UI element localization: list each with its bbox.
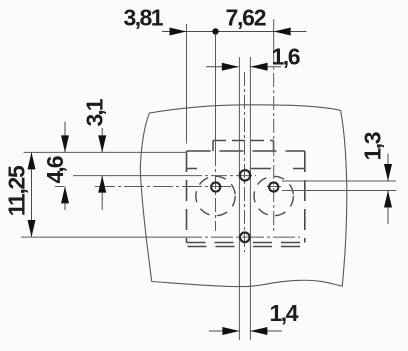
arrow 1,6 right	[251, 63, 268, 71]
dashed circle right contact	[254, 176, 293, 215]
arrow 1,4 left	[222, 327, 239, 335]
centerline vertical right hole	[273, 19, 275, 50]
slot right edge line	[249, 57, 251, 340]
hole circle top (1,6)	[240, 170, 250, 180]
arrow 4,6 top	[61, 135, 69, 152]
PCB square outline (wavy)	[140, 105, 346, 287]
hole circle right (pin)	[269, 182, 278, 191]
extension line x=186.5 (3,81)	[186, 24, 188, 144]
dimension line 1,4 left part	[209, 330, 239, 332]
hole circle left (pin)	[211, 182, 220, 191]
dimension line 3,1 upper	[101, 128, 103, 152]
arrow right of 7,62	[274, 28, 291, 36]
dimension line 1,3 upper	[387, 154, 389, 182]
dim origin dot	[212, 28, 218, 34]
svg-text:11,25: 11,25	[4, 165, 30, 216]
centerline vertical middle	[244, 72, 246, 252]
dimension line 3,81 / 7,62	[162, 31, 307, 33]
housing dashed rect top	[187, 150, 305, 152]
housing tab top dashed line	[213, 140, 274, 142]
dimension line 3,1 lower	[101, 176, 103, 210]
arrow 1,6 left	[222, 63, 239, 71]
housing dashed rect bottom lower line	[188, 246, 305, 248]
svg-text:3,1: 3,1	[82, 98, 108, 126]
arrow 11,25 bottom	[28, 220, 36, 237]
dimension line 1,4 right part	[250, 330, 282, 332]
hole circle bottom (1,6)	[240, 233, 250, 243]
svg-text:3,81: 3,81	[124, 5, 164, 31]
arrow 1,3 top	[384, 164, 392, 181]
svg-text:1,3: 1,3	[360, 132, 386, 161]
reference line y=175.6 top hole centerline	[73, 175, 186, 177]
arrow 11,25 top	[28, 152, 36, 169]
reference line y=186.5 holes centerline	[55, 186, 64, 188]
arrow 1,4 right	[250, 327, 267, 335]
1,3 slot lower line	[282, 190, 396, 192]
arrow left of 3,81	[170, 28, 187, 36]
reference line y=237 bottom hole centerline	[21, 236, 180, 238]
arrow 3,1 top	[98, 135, 106, 152]
svg-text:1,6: 1,6	[272, 44, 301, 70]
housing inner dashed line	[187, 168, 305, 170]
1,3 slot upper line	[282, 180, 396, 182]
svg-text:7,62: 7,62	[226, 4, 267, 30]
slot left edge line	[238, 57, 240, 340]
housing tab left side	[212, 141, 214, 152]
dimension line 4,6 upper	[64, 122, 66, 153]
dimension line 1,6 right part	[251, 66, 281, 68]
svg-text:1,4: 1,4	[270, 300, 299, 326]
centerline vertical left hole	[215, 35, 217, 152]
arrow 4,6 bottom	[61, 186, 69, 203]
housing tab right side	[273, 141, 275, 152]
housing dashed rect bottom upper line	[187, 242, 305, 244]
dimension line 1,6 left part	[206, 66, 239, 68]
reference line y=152.4 housing top extended	[24, 151, 188, 153]
arrow 1,3 bottom	[384, 191, 392, 208]
dimension line 11,25	[31, 152, 33, 237]
arrow 3,1 bottom	[98, 176, 106, 193]
dashed circle left contact	[196, 176, 235, 215]
housing dashed rect left	[186, 151, 188, 243]
housing dashed rect right	[304, 151, 306, 243]
dimension line 4,6 lower	[64, 186, 66, 210]
svg-text:4,6: 4,6	[42, 156, 68, 184]
dimension line 1,3 lower	[387, 191, 389, 225]
